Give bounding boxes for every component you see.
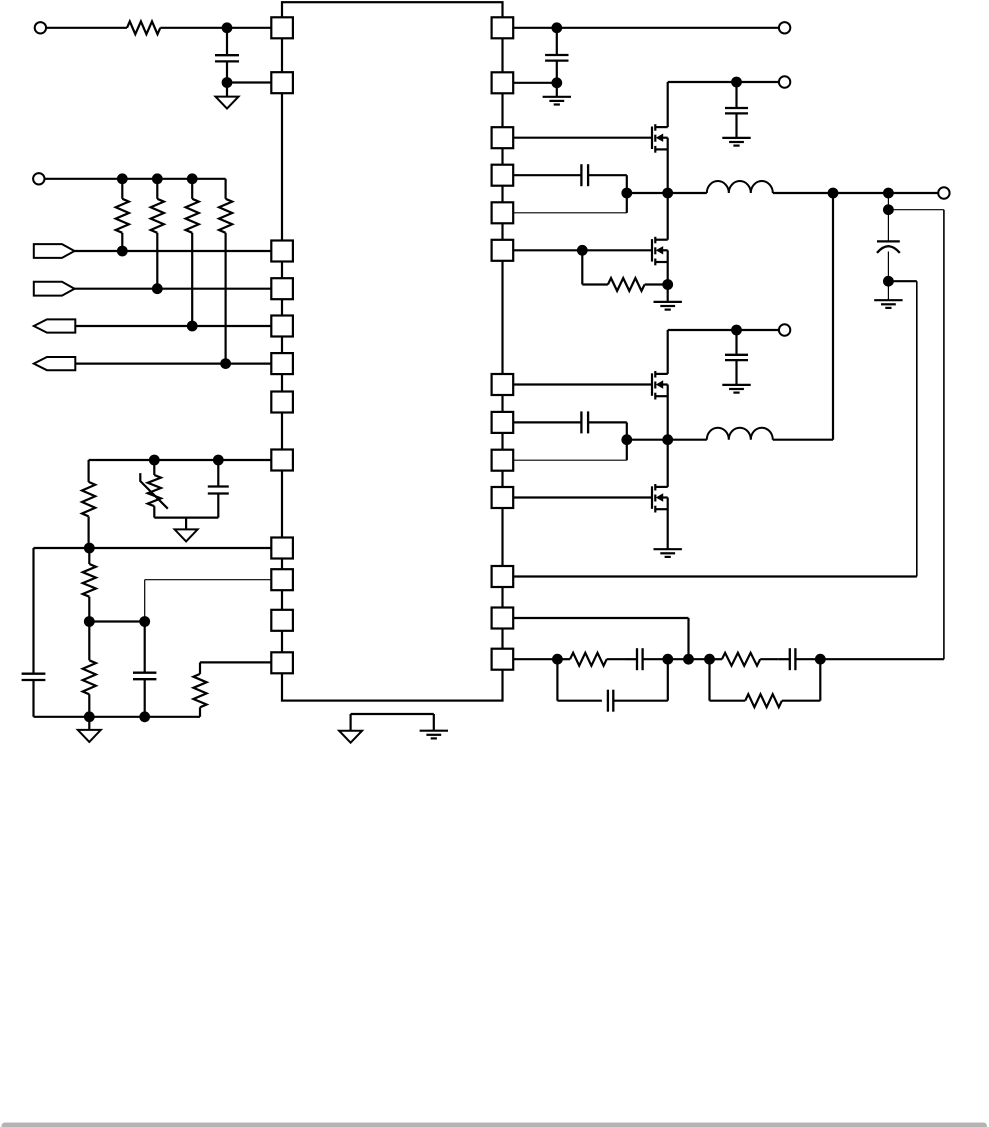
node junction [149, 455, 160, 466]
node junction [84, 616, 95, 627]
capacitor C5 [556, 28, 558, 55]
wire [154, 516, 218, 518]
IC pin R13 [492, 649, 514, 670]
earth ground [722, 137, 750, 139]
capacitor C8 (polarized) [887, 210, 889, 242]
resistor R3 [156, 179, 158, 199]
wire [34, 716, 201, 718]
wire [75, 250, 272, 252]
wire [668, 81, 779, 83]
wire [887, 193, 889, 210]
wire [916, 281, 918, 576]
wire [75, 363, 271, 365]
wire [75, 325, 271, 327]
IC pin L9 [271, 538, 293, 559]
wire [513, 212, 627, 214]
wire [667, 440, 669, 487]
wire [832, 193, 834, 440]
node junction [704, 654, 715, 665]
IC pin R11 [492, 566, 514, 587]
ground [88, 717, 90, 730]
wire [513, 575, 917, 577]
node junction [883, 204, 894, 215]
resistor R6 [87, 460, 89, 482]
inductor L1 [668, 192, 707, 194]
earth ground [654, 548, 682, 550]
resistor R9 [199, 707, 201, 717]
node junction [828, 188, 839, 199]
capacitor C6 [735, 82, 737, 108]
node junction [220, 358, 231, 369]
wire [667, 250, 669, 302]
wire [668, 658, 710, 660]
node junction [117, 246, 128, 257]
node junction [152, 283, 163, 294]
node junction [662, 188, 673, 199]
IC pin L5 [271, 316, 293, 337]
node junction [222, 77, 233, 88]
wire [627, 439, 668, 441]
capacitor C7 (bootstrap) [513, 174, 581, 176]
IC pin R2 [492, 72, 514, 93]
wire [667, 82, 669, 127]
transistor Q2 (low-side NMOS) [651, 239, 653, 262]
transistor Q3 (high-side NMOS) [651, 373, 653, 396]
wire [75, 288, 272, 290]
wire [513, 617, 688, 619]
wire [513, 459, 627, 461]
IC pin L11 [271, 610, 293, 631]
IC pin L8 [271, 450, 293, 471]
capacitor C11 [636, 648, 638, 670]
earth ground [722, 384, 750, 386]
IC pin L3 [271, 241, 293, 262]
wire [513, 137, 652, 139]
inductor L2 [668, 439, 707, 441]
wire [513, 496, 652, 498]
node junction [84, 543, 95, 554]
node junction [621, 434, 632, 445]
thermistor RT1 [153, 460, 155, 475]
wire [89, 459, 272, 461]
IC pin L7 [271, 392, 293, 413]
node junction [187, 321, 198, 332]
earth ground [654, 301, 682, 303]
node junction [621, 188, 632, 199]
IC pin L10 [271, 569, 293, 590]
earth ground [556, 83, 558, 97]
wire [888, 280, 916, 282]
wire [513, 658, 557, 660]
IC pin R9 [492, 450, 514, 471]
terminal VIN2 [779, 324, 790, 335]
resistor R5 [225, 179, 227, 199]
node junction [551, 77, 562, 88]
node junction [117, 173, 128, 184]
resistor R2 [121, 179, 123, 199]
resistor R11 [557, 658, 570, 660]
earth ground [433, 714, 435, 731]
IC pin R7 [492, 374, 514, 395]
wire [667, 385, 669, 440]
wire [667, 330, 669, 374]
node junction [139, 616, 150, 627]
wire [46, 27, 127, 29]
wire [626, 175, 628, 213]
wire [668, 329, 779, 331]
input flag SDA [34, 282, 75, 296]
resistor R13 [708, 659, 710, 701]
node junction [662, 654, 673, 665]
wire [943, 210, 945, 660]
IC pin L2 [271, 72, 293, 93]
capacitor C13 [556, 659, 558, 701]
node junction [683, 654, 694, 665]
wire [513, 249, 652, 251]
node junction [731, 77, 742, 88]
IC pin R5 [492, 202, 514, 223]
terminal VCC [779, 22, 790, 33]
IC pin L4 [271, 278, 293, 299]
node junction [552, 654, 563, 665]
node junction [883, 276, 894, 287]
ground [226, 83, 228, 97]
wire [627, 192, 668, 194]
wire [160, 27, 271, 29]
capacitor C9 [735, 330, 737, 355]
terminal EN input [35, 22, 46, 33]
terminal VIN1 [779, 76, 790, 87]
earth ground [874, 299, 902, 301]
capacitor C10 (bootstrap) [513, 421, 581, 423]
IC pin R4 [492, 165, 514, 186]
IC pin R12 [492, 608, 514, 629]
ground [350, 714, 352, 731]
IC pin R10 [492, 487, 514, 508]
node junction [551, 22, 562, 33]
capacitor C4 [144, 622, 146, 673]
node junction [213, 455, 224, 466]
node junction [84, 711, 95, 722]
node junction [662, 434, 673, 445]
node junction [577, 245, 588, 256]
wire [820, 658, 944, 660]
node junction [222, 22, 233, 33]
capacitor C12 [789, 648, 791, 670]
IC pin L6 [271, 353, 293, 374]
resistor R12 [710, 658, 722, 660]
output flag PGOOD [34, 357, 76, 370]
ground [185, 518, 187, 530]
terminal VOUT [938, 187, 949, 198]
wire [44, 178, 225, 180]
IC pin L12 [271, 652, 293, 673]
terminal VCC pullup [33, 173, 44, 184]
wire [351, 713, 434, 715]
input flag SCL [34, 244, 75, 258]
wire [667, 138, 669, 193]
IC pin L1 [271, 17, 293, 38]
wire [513, 383, 652, 385]
node junction [815, 654, 826, 665]
IC pin R3 [492, 127, 514, 148]
output flag ALERT [34, 319, 76, 332]
node junction [187, 173, 198, 184]
wire [513, 27, 778, 29]
wire [145, 579, 272, 581]
wire [667, 193, 669, 240]
node junction [662, 279, 673, 290]
node junction [731, 325, 742, 336]
wire [626, 422, 628, 460]
IC pin R6 [492, 240, 514, 261]
footer bar [2, 1123, 988, 1127]
capacitor C2 [217, 460, 219, 487]
wire [89, 620, 144, 622]
wire [887, 281, 889, 300]
node junction [883, 188, 894, 199]
wire [888, 209, 944, 211]
capacitor C3 [32, 548, 34, 674]
wire [667, 498, 669, 550]
IC pin R8 [492, 412, 514, 433]
capacitor C1 [226, 28, 228, 55]
transistor Q4 (low-side NMOS) [651, 486, 653, 509]
IC U1 body [282, 2, 503, 700]
IC pin R1 [492, 17, 514, 38]
node junction [139, 711, 150, 722]
resistor R4 [191, 179, 193, 199]
resistor R10 [581, 250, 583, 284]
resistor R7 [88, 548, 90, 564]
resistor R1 [127, 21, 160, 34]
transistor Q1 (high-side NMOS) [651, 127, 653, 150]
resistor R8 [88, 622, 90, 661]
node junction [152, 173, 163, 184]
wire [34, 547, 272, 549]
